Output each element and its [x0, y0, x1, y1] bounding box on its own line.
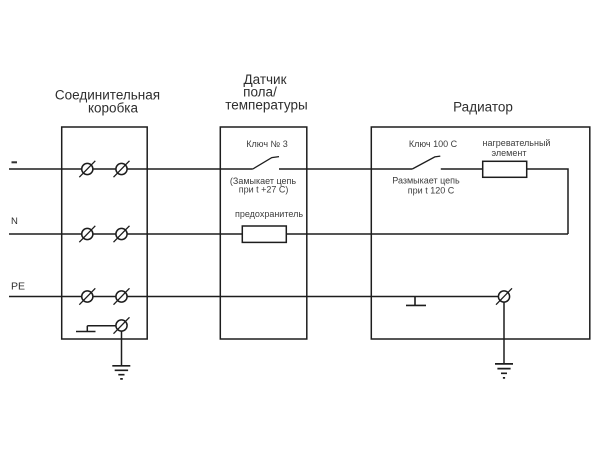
svg-text:Радиатор: Радиатор — [453, 100, 513, 115]
svg-text:N: N — [11, 216, 18, 227]
svg-text:коробка: коробка — [88, 101, 139, 116]
svg-text:температуры: температуры — [225, 98, 308, 113]
svg-text:нагревательный: нагревательный — [483, 138, 551, 148]
svg-text:PE: PE — [11, 281, 25, 293]
svg-text:предохранитель: предохранитель — [235, 209, 303, 219]
svg-text:элемент: элемент — [492, 148, 527, 158]
svg-text:Ключ № 3: Ключ № 3 — [246, 139, 287, 149]
svg-text:при t 120 С: при t 120 С — [408, 186, 455, 196]
svg-text:при t +27 С): при t +27 С) — [239, 185, 289, 195]
svg-text:Ключ 100 С: Ключ 100 С — [409, 139, 458, 149]
svg-text:Размыкает цепь: Размыкает цепь — [392, 176, 460, 186]
